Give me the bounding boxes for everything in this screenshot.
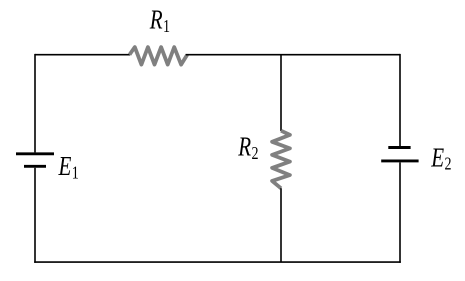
resistor R2 [272,131,290,189]
label R2 [237,132,258,163]
battery E2 short plate [388,146,410,149]
wire top-left segment [35,54,130,56]
label E2 [430,143,451,174]
wire bottom segment [34,261,401,263]
svg-text:E1: E1 [58,151,79,182]
label E1 [58,151,79,182]
svg-text:R1: R1 [149,5,170,36]
wire right lower segment [399,163,401,263]
resistor R1 [130,47,188,65]
battery E1 long plate [16,152,54,155]
svg-text:E2: E2 [430,143,451,174]
battery E1 short plate [24,165,46,168]
wire middle upper segment [280,55,282,131]
wire left lower segment [34,168,36,263]
wire left upper segment [34,54,36,152]
label R1 [149,5,170,36]
wire right upper segment [399,54,401,146]
wire middle lower segment [280,188,282,262]
wire top-right segment [186,54,400,56]
battery E2 long plate [381,159,418,162]
svg-text:R2: R2 [237,132,258,163]
